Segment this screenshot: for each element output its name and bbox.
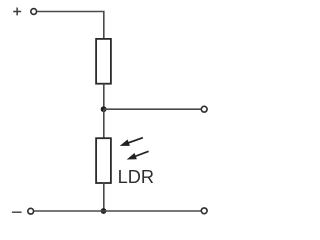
terminal T1 (top-left, open circle)	[31, 9, 37, 15]
label + (positive supply)	[13, 8, 21, 16]
wire (LDR to bottom junction)	[103, 183, 105, 211]
node A (mid junction dot)	[101, 106, 107, 112]
wire (bottom rail: left terminal to right terminal)	[34, 210, 201, 212]
LDR R2 (light dependent resistor body)	[96, 138, 111, 183]
resistor R1	[96, 39, 111, 84]
terminal T2 (mid-right output, open circle)	[201, 106, 207, 112]
wire (resistor to mid junction)	[103, 84, 105, 110]
wire (top rail: terminal to corner, down to resistor)	[37, 12, 104, 40]
terminal T4 (bottom-right output, open circle)	[201, 208, 207, 214]
light arrow 2 (lower incident light arrow)	[126, 148, 150, 163]
terminal T3 (bottom-left, open circle)	[28, 208, 34, 214]
label − (negative supply)	[12, 211, 22, 213]
svg-text:LDR: LDR	[118, 167, 154, 187]
light arrow 1 (upper incident light arrow)	[119, 134, 144, 149]
node B (bottom junction dot)	[101, 208, 107, 214]
wire (mid junction down to LDR)	[103, 109, 105, 138]
wire (mid junction to right terminal)	[104, 108, 201, 110]
